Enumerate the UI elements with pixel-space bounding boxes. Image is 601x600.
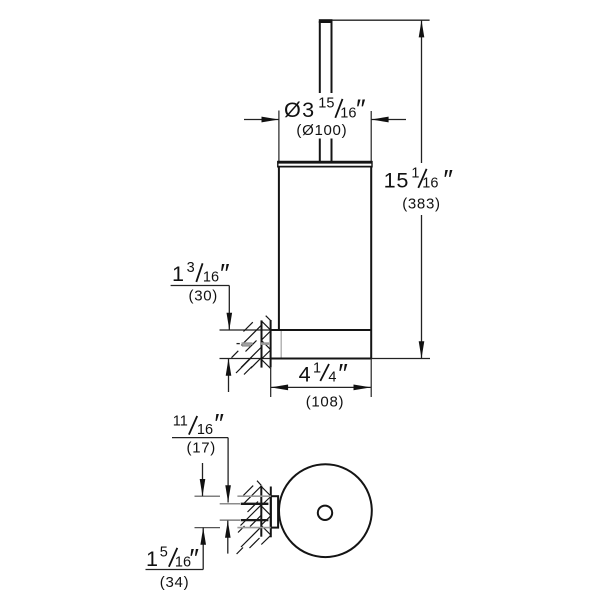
dimension 30: down arrow: [227, 286, 233, 331]
container body: [279, 168, 371, 359]
svg-text:(108): (108): [306, 393, 345, 410]
holder bottom edge: [271, 358, 371, 360]
dimension 30: leader line: [171, 285, 230, 287]
svg-text:(30): (30): [189, 287, 218, 304]
wall hatch side view: [232, 316, 271, 375]
svg-text:1: 1: [411, 165, 419, 181]
svg-text:″: ″: [220, 258, 230, 288]
holder inner edge gray: [280, 331, 282, 358]
dimension 34: leader line: [146, 569, 204, 571]
screw centre line side view: [237, 344, 270, 346]
svg-text:(17): (17): [187, 439, 216, 456]
svg-text:(34): (34): [160, 574, 189, 591]
svg-text:Ø3: Ø3: [284, 97, 315, 122]
label 4 1/4 inch: [299, 358, 349, 388]
extension line to height dimension: [371, 358, 430, 360]
dimension diameter top: right arrow: [371, 117, 406, 123]
svg-text:4: 4: [299, 361, 311, 386]
svg-text:16: 16: [197, 422, 213, 438]
dimension 108: line with arrows: [271, 385, 371, 391]
lid: [277, 161, 372, 168]
svg-text:11: 11: [173, 413, 188, 429]
dimension 17: down arrow: [225, 438, 231, 503]
svg-text:″: ″: [189, 543, 199, 573]
extension line D (plate bottom): [195, 527, 271, 529]
svg-text:″: ″: [214, 409, 224, 439]
extension line diameter left: [278, 111, 280, 162]
dimension 17: up arrow: [225, 521, 231, 554]
svg-text:3: 3: [187, 260, 195, 276]
label 1 3/16 inch: [172, 258, 230, 288]
svg-text:1: 1: [313, 361, 321, 377]
svg-text:(383): (383): [402, 195, 441, 212]
label diameter 3 15/16 inch: [284, 94, 366, 124]
svg-text:4: 4: [328, 369, 336, 385]
wall hatch bottom view: [237, 481, 271, 554]
wall lines bottom view: [261, 486, 271, 538]
svg-text:16: 16: [203, 269, 219, 285]
label 15 1/16 inch: [384, 165, 454, 195]
rod circle top view: [318, 506, 332, 520]
label 1 5/16 inch: [146, 543, 199, 573]
dimension 34: up arrow: [200, 528, 206, 570]
height dimension line 383: [332, 20, 430, 358]
svg-text:16: 16: [340, 106, 356, 122]
holder bottom extension line left: [220, 358, 272, 360]
svg-text:″: ″: [443, 165, 453, 195]
container circle top view: [279, 464, 372, 557]
extension line diameter right: [370, 111, 372, 161]
dimension diameter top: left arrow: [244, 117, 279, 123]
wall lines side view: [262, 320, 271, 368]
brush handle rod: [319, 19, 333, 161]
svg-text:(Ø100): (Ø100): [296, 122, 347, 139]
svg-text:1: 1: [146, 546, 158, 571]
extension line A (plate top): [195, 495, 271, 497]
dimension 17: leader line: [172, 437, 228, 439]
svg-text:15: 15: [318, 96, 334, 112]
dimension 30: up arrow: [226, 359, 232, 393]
holder top edge: [271, 329, 371, 331]
dimension 108: extension lines: [270, 368, 272, 397]
svg-text:15: 15: [384, 168, 410, 193]
extension line C (neck bottom): [220, 519, 269, 521]
extension line B (neck top): [220, 503, 269, 505]
label 11/16 inch: [173, 409, 225, 439]
svg-text:1: 1: [172, 261, 184, 286]
holder top extension line: [220, 329, 272, 331]
svg-text:16: 16: [422, 175, 438, 191]
svg-text:5: 5: [160, 545, 168, 561]
svg-text:″: ″: [338, 358, 348, 388]
svg-text:″: ″: [356, 94, 366, 124]
dimension 34: down arrow: [200, 463, 206, 496]
mounting plate bottom view: [271, 496, 278, 527]
